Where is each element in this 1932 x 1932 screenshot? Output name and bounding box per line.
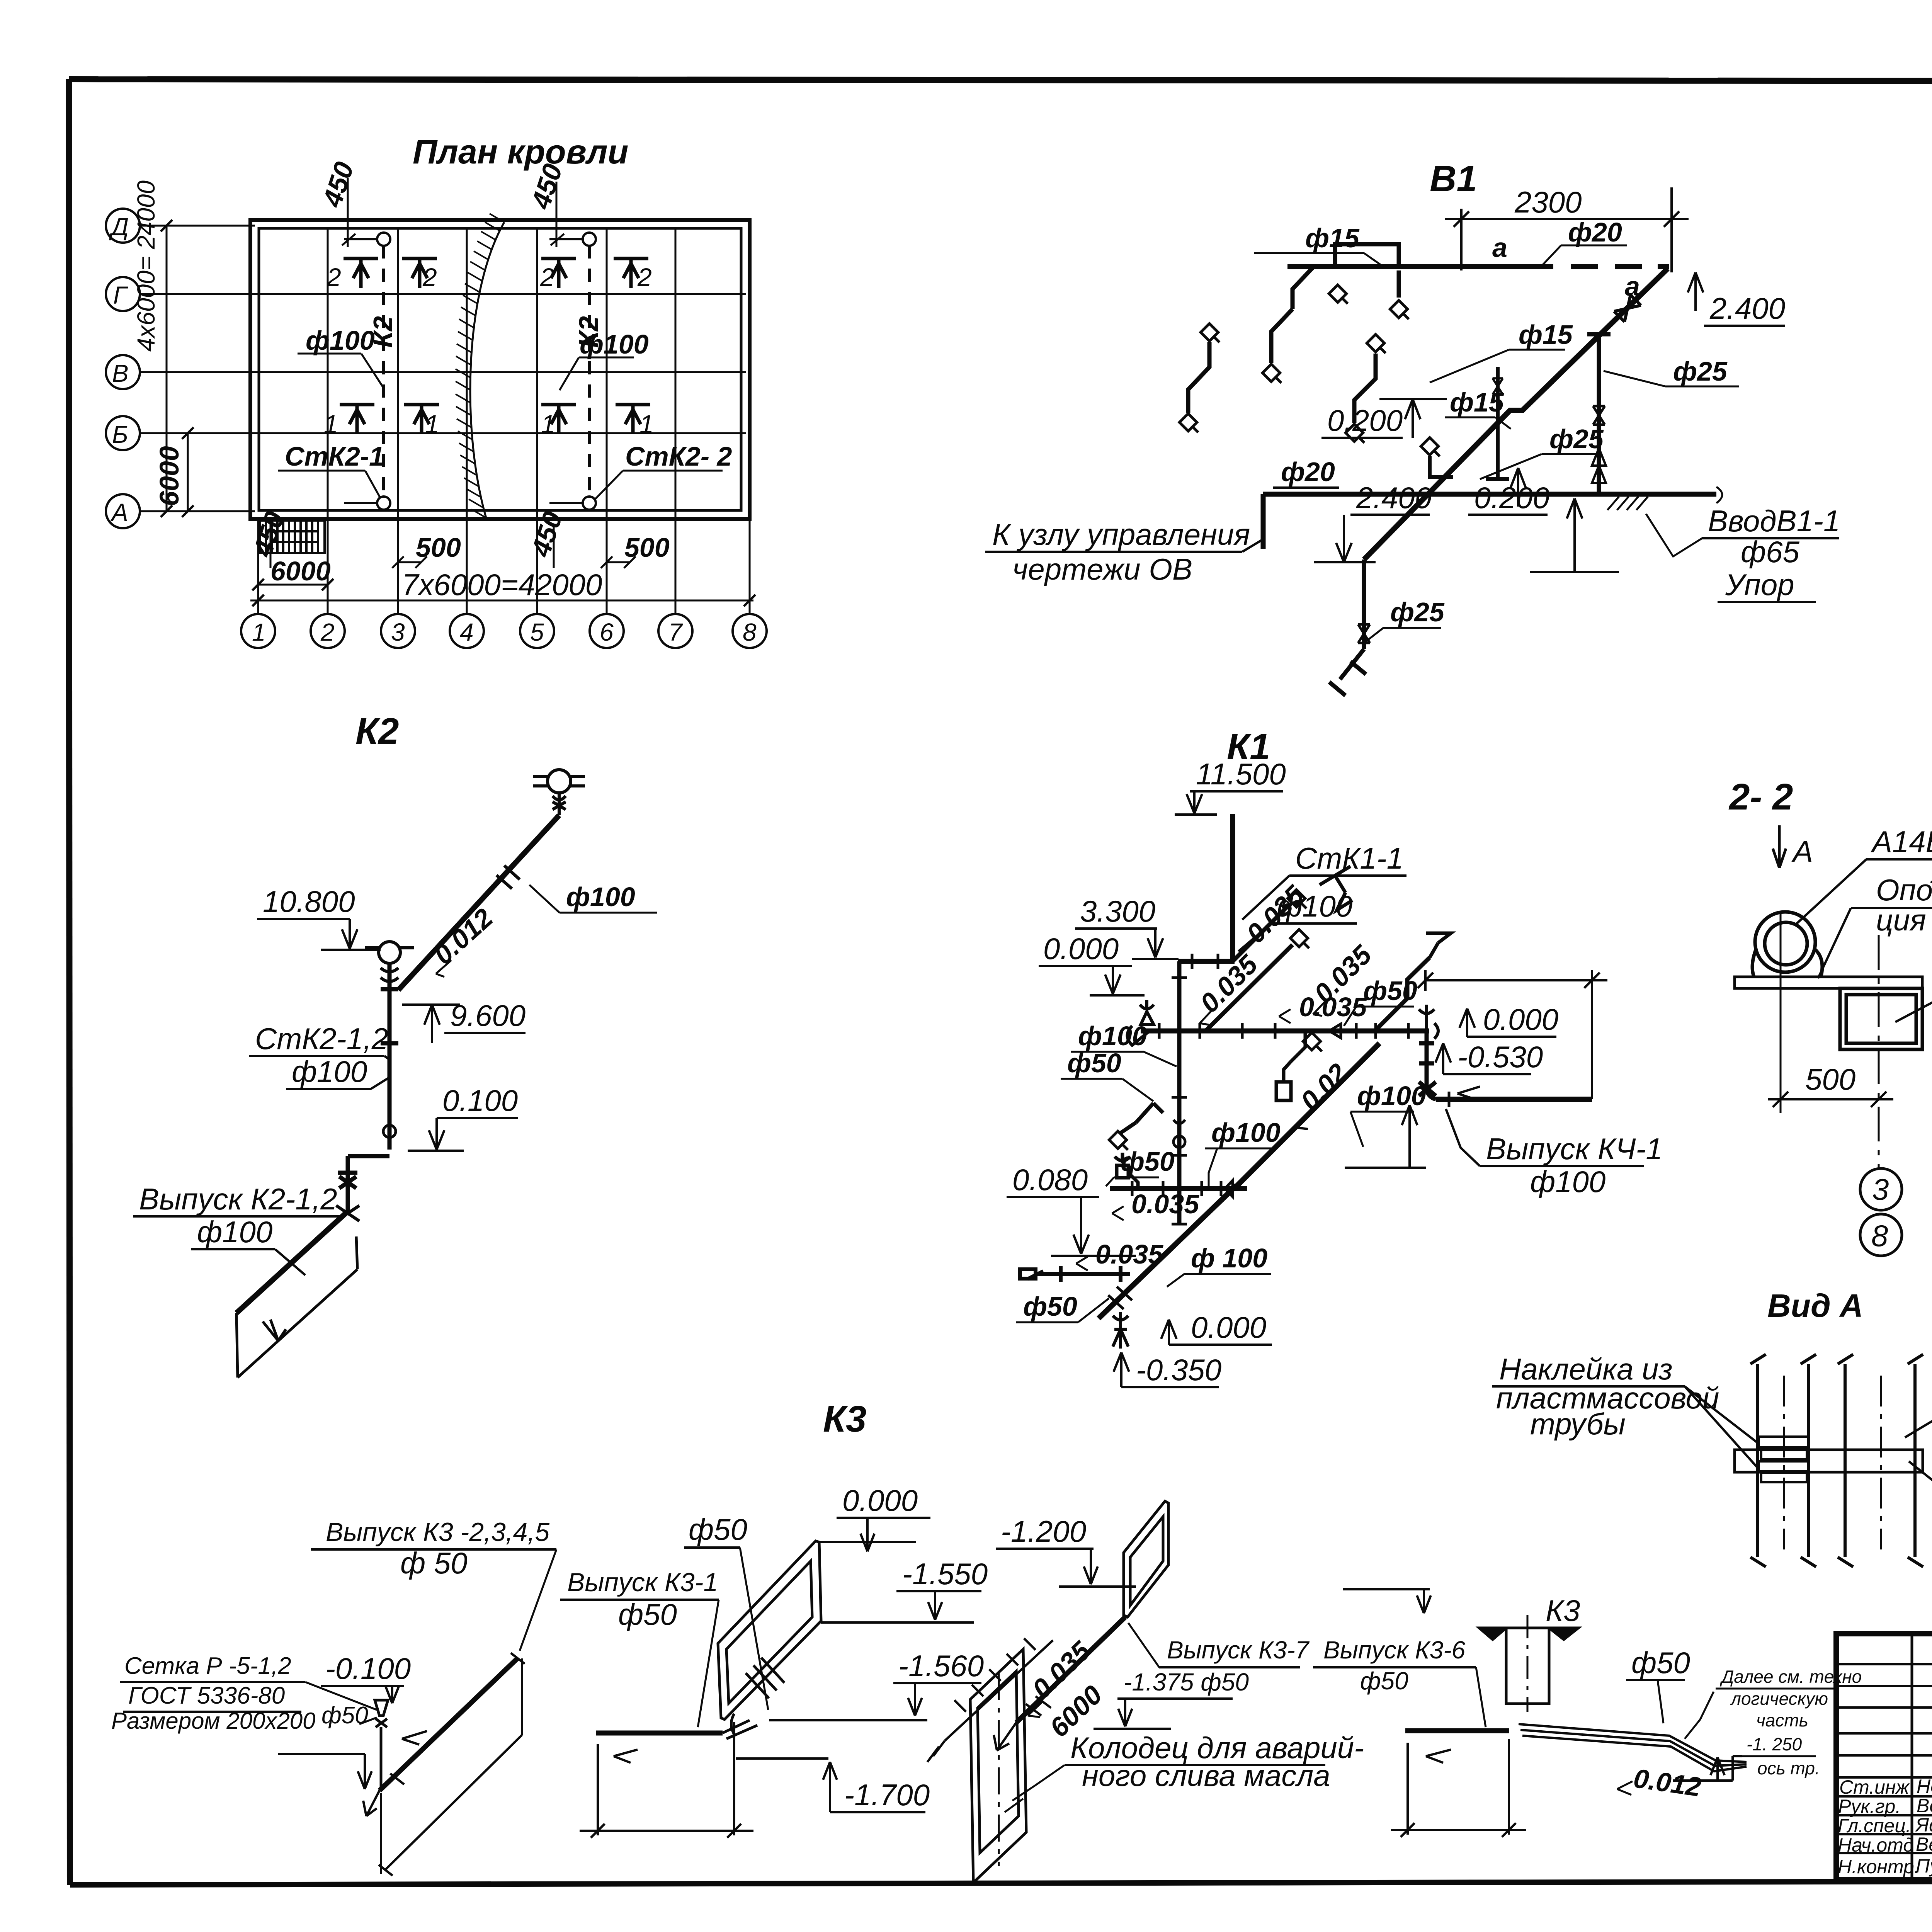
thick pipe diag — [1016, 1617, 1125, 1723]
svg-text:часть: часть — [1756, 1710, 1808, 1730]
svg-text:СтК2- 2: СтК2- 2 — [625, 441, 732, 471]
svg-text:1: 1 — [252, 618, 266, 646]
grate panel — [718, 1541, 821, 1719]
svg-text:Выпуск К3 -2,3,4,5: Выпуск К3 -2,3,4,5 — [326, 1517, 549, 1547]
svg-text:500: 500 — [416, 532, 461, 563]
svg-text:К узлу управления: К узлу управления — [992, 517, 1250, 551]
bottom small line with symbols — [1020, 1266, 1130, 1282]
hatched bank — [927, 1638, 1053, 1762]
bottom pipe — [1329, 560, 1366, 696]
svg-text:0.000: 0.000 — [842, 1483, 918, 1517]
up arrow for vypusk level — [1402, 1105, 1417, 1144]
svg-text:ф100: ф100 — [1357, 1081, 1426, 1111]
svg-text:0.000: 0.000 — [1043, 932, 1119, 966]
svg-text:ф100: ф100 — [292, 1054, 367, 1088]
pipe left of well — [1405, 1728, 1509, 1733]
svg-text:-0.350: -0.350 — [1136, 1353, 1221, 1387]
svg-text:Опорная конструк-: Опорная конструк- — [1876, 873, 1932, 907]
svg-text:Г: Г — [113, 281, 128, 309]
svg-text:2300: 2300 — [1514, 185, 1582, 219]
svg-text:ф 100: ф 100 — [1191, 1243, 1267, 1273]
svg-text:К3: К3 — [823, 1398, 866, 1440]
dims below — [580, 1722, 753, 1838]
bottom dimension lines — [167, 226, 753, 600]
svg-text:А14Б 192.000-04: А14Б 192.000-04 — [1871, 825, 1932, 859]
svg-text:ф25: ф25 — [1549, 424, 1604, 454]
svg-text:-0.530: -0.530 — [1458, 1040, 1543, 1074]
detail D: Vypusk K3-6 — [1343, 1589, 1431, 1613]
svg-text:К3: К3 — [1546, 1594, 1580, 1628]
vvod arrow — [1567, 498, 1582, 537]
svg-text:7х6000=42000: 7х6000=42000 — [402, 568, 602, 602]
2.400 right — [1688, 272, 1703, 311]
svg-text:ф20: ф20 — [1281, 457, 1335, 487]
svg-text:ф15: ф15 — [1450, 387, 1504, 417]
diagonal pipe — [398, 815, 559, 990]
svg-text:СтК2-1,2: СтК2-1,2 — [255, 1022, 388, 1056]
svg-text:Выпуск К3-1: Выпуск К3-1 — [567, 1568, 718, 1597]
svg-text:ф50: ф50 — [321, 1702, 368, 1729]
vertical panel — [1124, 1501, 1168, 1617]
svg-text:3: 3 — [1872, 1172, 1889, 1206]
svg-text:Далее см. техно: Далее см. техно — [1719, 1667, 1862, 1687]
svg-text:трубы: трубы — [1530, 1407, 1626, 1441]
svg-text:1: 1 — [324, 410, 338, 438]
grid axes verticals — [258, 228, 750, 615]
SCHEMATICS — [106, 133, 767, 648]
svg-text:ф50: ф50 — [1631, 1646, 1690, 1680]
svg-text:0.000: 0.000 — [1191, 1310, 1266, 1344]
TITLEBLOCK — [1836, 1492, 1932, 1918]
svg-text:2: 2 — [327, 263, 341, 291]
building outline double — [250, 220, 750, 519]
valve circle — [383, 1125, 396, 1138]
svg-text:6000: 6000 — [270, 556, 331, 586]
diagonals up from line2 — [1206, 904, 1430, 1031]
svg-text:5: 5 — [530, 618, 544, 646]
svg-text:-0.100: -0.100 — [325, 1651, 411, 1685]
svg-text:чертежи ОВ: чертежи ОВ — [1012, 552, 1192, 586]
svg-text:А: А — [110, 498, 128, 526]
phi25 vertical right — [1587, 334, 1611, 494]
svg-text:-1.375 ф50: -1.375 ф50 — [1124, 1668, 1249, 1696]
svg-text:0.080: 0.080 — [1012, 1163, 1088, 1197]
svg-text:8: 8 — [743, 618, 757, 646]
stack vertical — [1230, 814, 1235, 961]
svg-text:В1: В1 — [1430, 158, 1477, 199]
svg-text:Новик: Новик — [1917, 1776, 1932, 1797]
svg-text:СтК2-1: СтК2-1 — [285, 441, 384, 471]
svg-text:ф15: ф15 — [1519, 320, 1573, 350]
support bar — [1735, 1450, 1923, 1472]
svg-text:500: 500 — [1805, 1062, 1855, 1096]
right end funnel — [1419, 1005, 1438, 1039]
svg-text:10.800: 10.800 — [263, 884, 355, 918]
vertical down to vypusk — [1419, 1031, 1436, 1099]
svg-text:В: В — [112, 359, 129, 387]
svg-text:Гл.спец.: Гл.спец. — [1838, 1815, 1911, 1837]
thick pipe diagonal — [379, 1658, 517, 1791]
left L dim — [278, 1731, 427, 1789]
svg-text:ф100: ф100 — [197, 1215, 272, 1249]
svg-text:ф50: ф50 — [618, 1597, 677, 1631]
svg-text:2: 2 — [540, 263, 554, 291]
grid axes horizontals — [140, 226, 746, 511]
svg-text:ф50: ф50 — [1023, 1291, 1077, 1321]
svg-text:Волчков: Волчков — [1917, 1795, 1932, 1816]
main diagonal — [1364, 269, 1668, 560]
chords — [1750, 1354, 1923, 1567]
svg-text:ф50: ф50 — [1121, 1146, 1175, 1177]
svg-text:1: 1 — [425, 410, 439, 438]
svg-text:ось тр.: ось тр. — [1757, 1758, 1820, 1778]
svg-text:ф50: ф50 — [1067, 1048, 1121, 1078]
center line — [1781, 912, 1879, 1167]
svg-text:1: 1 — [541, 410, 555, 438]
svg-text:а: а — [1492, 233, 1507, 263]
svg-text:0.100: 0.100 — [442, 1083, 518, 1117]
svg-text:ф65: ф65 — [1741, 535, 1800, 569]
svg-text:2- 2: 2- 2 — [1728, 776, 1793, 818]
svg-text:ф100: ф100 — [306, 325, 375, 355]
svg-text:Упор: Упор — [1725, 568, 1794, 602]
center small fixtures — [1430, 367, 1509, 479]
svg-text:2: 2 — [637, 263, 652, 291]
svg-text:А: А — [1791, 834, 1813, 868]
line1 — [1178, 959, 1235, 964]
svg-text:1: 1 — [639, 410, 654, 438]
svg-text:8: 8 — [1871, 1219, 1888, 1253]
svg-text:ф15: ф15 — [1305, 223, 1360, 253]
svg-text:СтК1-1: СтК1-1 — [1295, 841, 1403, 875]
svg-text:логическую: логическую — [1730, 1689, 1828, 1709]
svg-text:0.035: 0.035 — [1095, 1239, 1163, 1269]
svg-text:-1.200: -1.200 — [1001, 1514, 1086, 1548]
svg-text:-1.550: -1.550 — [902, 1557, 988, 1591]
svg-text:Б: Б — [112, 420, 128, 448]
big diagonal 0.02 — [1235, 1043, 1379, 1188]
horizontal pipe — [596, 1731, 723, 1736]
elbow to outlet — [338, 1156, 389, 1211]
funnel hanging left — [1128, 1000, 1154, 1045]
svg-text:Ст.инж: Ст.инж — [1839, 1776, 1910, 1798]
triple pipe right of well — [1519, 1724, 1747, 1771]
svg-text:4: 4 — [460, 618, 474, 646]
svg-text:-1.560: -1.560 — [898, 1649, 984, 1683]
K2 dashed risers — [384, 245, 589, 497]
vertical stack — [381, 963, 398, 1150]
svg-text:К2: К2 — [355, 711, 399, 752]
dims below detail D — [1391, 1739, 1526, 1837]
left signature table verticals — [1911, 1634, 1913, 1879]
circles 3 8 — [1860, 1168, 1902, 1256]
hanging fixture left of line3 — [1115, 1153, 1138, 1189]
svg-text:9.600: 9.600 — [450, 998, 526, 1032]
top pipe — [1287, 264, 1669, 269]
svg-text:Нач.отд: Нач.отд — [1838, 1834, 1914, 1856]
middle hanging sprinkler group — [1276, 1031, 1305, 1100]
outlet diagonal — [236, 1211, 348, 1313]
svg-text:11.500: 11.500 — [1196, 757, 1286, 791]
svg-text:ф25: ф25 — [1390, 597, 1445, 627]
svg-text:6: 6 — [600, 618, 614, 646]
svg-text:ф100: ф100 — [1530, 1165, 1605, 1199]
svg-text:ф100: ф100 — [566, 882, 635, 912]
svg-text:Пундиков: Пундиков — [1916, 1855, 1932, 1877]
lower pipe — [1263, 494, 1716, 549]
svg-text:7: 7 — [668, 618, 683, 646]
signature rows — [1838, 1776, 1932, 1878]
svg-text:3.300: 3.300 — [1080, 894, 1155, 928]
svg-text:ф25: ф25 — [1673, 356, 1728, 386]
svg-text:ного слива масла: ного слива масла — [1082, 1759, 1330, 1793]
axis circles left — [106, 209, 140, 528]
svg-text:Н.контр.: Н.контр. — [1838, 1856, 1920, 1878]
svg-text:Выпуск К2-1,2: Выпуск К2-1,2 — [139, 1182, 337, 1216]
svg-text:2.400: 2.400 — [1709, 291, 1785, 325]
svg-text:-1.700: -1.700 — [844, 1778, 930, 1812]
svg-text:ф 50: ф 50 — [400, 1546, 468, 1580]
svg-text:-1. 250: -1. 250 — [1747, 1734, 1802, 1754]
line3 lower horizontal — [1110, 1186, 1247, 1191]
roof drain top — [533, 770, 585, 815]
svg-text:2.400: 2.400 — [1356, 481, 1432, 515]
funnel top right tilted — [1320, 866, 1451, 957]
svg-text:2: 2 — [320, 618, 335, 646]
main stamp outline — [1836, 1634, 1932, 1879]
svg-text:6000: 6000 — [154, 446, 184, 506]
svg-text:4х6000= 24000: 4х6000= 24000 — [132, 180, 160, 352]
break line with hatch — [470, 222, 504, 518]
svg-text:Сетка Р -5-1,2: Сетка Р -5-1,2 — [124, 1653, 291, 1679]
line2 long horizontal — [1141, 1029, 1429, 1034]
hatch wall at vvod — [1607, 487, 1722, 510]
small branch with sprinkler left — [1121, 1103, 1163, 1133]
svg-text:ф50: ф50 — [1360, 1667, 1408, 1695]
well — [1479, 1615, 1578, 1712]
dim 2300 — [1445, 187, 1689, 272]
clamp circle — [1752, 912, 1822, 978]
svg-text:ф100: ф100 — [580, 329, 649, 359]
svg-text:Размером 200х200: Размером 200х200 — [111, 1708, 316, 1734]
truss box — [1840, 988, 1922, 1049]
sleeve stack — [1759, 1437, 1808, 1482]
well parallelogram — [970, 1649, 1026, 1883]
svg-text:ГОСТ 5336-80: ГОСТ 5336-80 — [128, 1682, 285, 1709]
svg-text:Д: Д — [109, 213, 129, 241]
drain 2 — [365, 942, 414, 981]
svg-text:ф100: ф100 — [1211, 1117, 1281, 1148]
svg-text:3: 3 — [391, 618, 405, 646]
svg-text:Рук.гр.: Рук.гр. — [1838, 1796, 1901, 1817]
svg-text:План кровли: План кровли — [413, 133, 628, 171]
stairs — [260, 520, 325, 553]
svg-text:0.200: 0.200 — [1327, 403, 1403, 437]
main left vertical — [1177, 961, 1182, 1225]
svg-text:ВводВ1-1: ВводВ1-1 — [1708, 504, 1840, 538]
funnel + riser — [375, 1700, 388, 1789]
left fixture cluster — [1188, 244, 1399, 423]
svg-text:Ясиновский: Ясиновский — [1915, 1814, 1932, 1836]
svg-text:0.000: 0.000 — [1483, 1002, 1558, 1036]
svg-text:ф50: ф50 — [1363, 976, 1417, 1006]
funnels upper (label 2) — [340, 259, 650, 434]
svg-text:Вид А: Вид А — [1767, 1287, 1863, 1324]
svg-text:Выпуск КЧ-1: Выпуск КЧ-1 — [1486, 1132, 1663, 1166]
dim ticks — [161, 220, 755, 606]
dims right — [1418, 970, 1607, 1099]
svg-text:ф100: ф100 — [1078, 1021, 1147, 1051]
bottom diagonal — [1099, 1185, 1236, 1318]
funnel below — [1113, 1312, 1128, 1349]
ground parallelogram — [236, 1236, 357, 1378]
svg-text:500: 500 — [624, 532, 670, 563]
svg-text:Верченко: Верченко — [1916, 1833, 1932, 1855]
svg-text:Выпуск К3-7: Выпуск К3-7 — [1167, 1636, 1310, 1664]
plate — [1735, 977, 1922, 988]
svg-text:Выпуск К3-6: Выпуск К3-6 — [1323, 1636, 1466, 1664]
svg-text:ция см. чертежи КЖ: ция см. чертежи КЖ — [1876, 903, 1932, 937]
axis circles bottom — [241, 614, 767, 648]
svg-text:ф50: ф50 — [689, 1512, 747, 1546]
svg-text:ф20: ф20 — [1568, 217, 1622, 247]
svg-text:0.035: 0.035 — [1131, 1189, 1199, 1219]
svg-text:2: 2 — [422, 263, 437, 291]
left table rows — [1836, 1663, 1932, 1665]
